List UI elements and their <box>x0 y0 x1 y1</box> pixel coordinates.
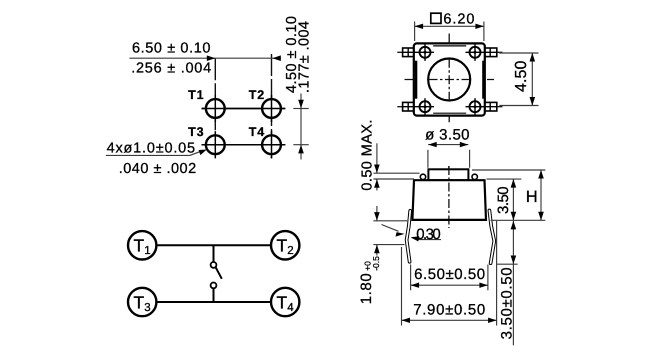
dim 3.50 body line <box>512 179 514 220</box>
lead top-right <box>485 48 497 57</box>
dim 6.50+-0.50 ext left <box>410 265 412 291</box>
dim 6.50+-0.50 arrow right <box>479 283 488 288</box>
leg right <box>489 211 494 264</box>
pad T1 <box>206 99 225 118</box>
cover inner line bottom <box>433 112 466 114</box>
dim 4.50 arrow down <box>298 100 304 109</box>
dim 7.90+-0.50 line <box>402 319 497 321</box>
switch S1 contact bottom <box>211 283 217 289</box>
tick T4 row <box>293 144 308 146</box>
svg-text:T3: T3 <box>188 125 204 139</box>
lead bottom-right <box>485 102 497 111</box>
dim 3.50 arrow down <box>511 212 517 221</box>
dim 0.50 arrow up <box>374 179 380 188</box>
dim 6.20 ext right <box>483 22 485 42</box>
leader 0.30 left <box>382 225 399 232</box>
svg-text:.256 ± .004: .256 ± .004 <box>131 61 211 77</box>
leader 0.30 right with underline <box>411 237 441 239</box>
centerline vertical side view <box>448 166 450 228</box>
svg-text:T4: T4 <box>249 125 265 139</box>
dim 3.50+-0.50 arrow up <box>511 221 517 230</box>
dim 1.80 line bottom <box>376 245 378 256</box>
rivet bottom-right <box>466 98 497 116</box>
svg-text:1.80: 1.80 <box>358 273 375 304</box>
rivet top-left <box>403 43 434 61</box>
ear left <box>420 174 425 179</box>
dim 0.50 tick bottom <box>374 178 415 180</box>
dim 6.50+-0.50 arrow left <box>411 283 420 288</box>
dim 6.50+-0.50 ext right <box>487 265 489 291</box>
dim 4.50 line <box>531 53 533 106</box>
pad T3 <box>206 135 225 154</box>
dim 7.90+-0.50 arrow right <box>488 318 497 323</box>
dim H arrow down <box>538 212 544 221</box>
seating tick <box>496 263 517 265</box>
svg-text:4.50: 4.50 <box>513 60 530 92</box>
tick T2 row <box>293 108 308 110</box>
svg-text:6.20: 6.20 <box>443 12 474 28</box>
dim dia 3.50 ext left <box>427 150 429 168</box>
side seam bar left <box>415 61 418 99</box>
terminal T1 <box>128 231 156 259</box>
dim 6.20 ext left <box>414 22 416 42</box>
pad T4 <box>262 135 281 154</box>
wire T3-T4 <box>157 301 272 303</box>
leg left <box>407 211 411 262</box>
terminal T3 <box>128 288 156 316</box>
dim 4.50 ext top <box>499 52 538 54</box>
dim 4.50 arrow up <box>298 145 304 154</box>
dim 0.50 tick top <box>374 172 420 174</box>
svg-text:-0.5: -0.5 <box>371 256 381 271</box>
dim H ext bottom <box>491 219 546 221</box>
pad centerline vertical T2-T4 <box>271 54 273 159</box>
pad row line T3-T4 <box>202 144 286 146</box>
dim square 6.20 symbol <box>431 13 441 23</box>
terminal T2 <box>271 231 299 259</box>
dim 4.50 ext bottom <box>499 105 538 107</box>
switch body side view <box>412 180 486 220</box>
dim 6.50 arrow left <box>272 55 281 61</box>
dim 6.50+-0.50 line <box>411 284 488 286</box>
dim 4.50 arrow up <box>530 53 536 62</box>
svg-text:T2: T2 <box>249 88 265 102</box>
dim dia 3.50 ext right <box>469 150 471 168</box>
svg-text:0.50 MAX.: 0.50 MAX. <box>360 120 376 191</box>
dim 6.20 arrow right <box>475 24 484 29</box>
svg-text:6.50±0.50: 6.50±0.50 <box>414 266 485 283</box>
centerline inside body <box>448 166 450 219</box>
pad centerline vertical T1-T3 <box>214 58 216 158</box>
svg-text:H: H <box>526 188 538 206</box>
dim H line <box>540 170 542 220</box>
button side view <box>428 169 468 180</box>
switch body outline top view <box>414 43 485 115</box>
switch S1 stem top <box>213 245 215 262</box>
terminal T4 <box>271 288 299 316</box>
wire T1-T2 <box>157 244 272 246</box>
dim 6.20 line <box>415 25 484 27</box>
pad crosshairs <box>202 95 286 158</box>
lead top-left <box>403 48 414 57</box>
dim 6.50 arrow right <box>207 55 216 61</box>
dim H arrow up <box>538 170 544 179</box>
side seam bar right <box>482 61 485 99</box>
dim 4.50 arrow down <box>530 97 536 106</box>
dim 1.80 text rotated <box>358 256 381 304</box>
svg-text:.177± .004: .177± .004 <box>296 21 312 93</box>
dim 7.90+-0.50 ext left <box>401 247 403 326</box>
dim 3.50 body ext <box>487 178 522 180</box>
dim 3.50+-0.50 line <box>512 221 514 346</box>
dim 0.50 line top <box>376 143 378 173</box>
dim 7.90+-0.50 ext right <box>496 221 498 326</box>
dimension 6.50 line <box>129 57 281 59</box>
rivet top-right <box>466 43 497 61</box>
centerline horizontal top view <box>405 79 495 81</box>
rivet bottom-left <box>403 98 434 116</box>
lead bottom-left <box>403 102 414 111</box>
svg-text:6.50 ± 0.10: 6.50 ± 0.10 <box>132 41 211 57</box>
switch S1 lever <box>216 267 222 279</box>
button circle top view <box>428 59 470 101</box>
leader line 4x dia <box>106 154 190 156</box>
dim 3.50+-0.50 arrow down <box>511 256 517 265</box>
dim 1.80 arrow down <box>374 212 380 221</box>
svg-text:3.50±0.50: 3.50±0.50 <box>498 267 515 339</box>
dim 3.50 arrow up <box>511 179 517 188</box>
svg-text:7.90±0.50: 7.90±0.50 <box>413 302 485 319</box>
dim 1.80 arrow up <box>374 245 380 254</box>
pad T2 <box>262 99 281 118</box>
switch S1 contact top <box>211 262 217 268</box>
dim 0.50 arrow down <box>374 165 380 174</box>
dim H ext top <box>472 169 545 171</box>
dim 1.80 line top <box>376 206 378 221</box>
dimension 4.50 vertical line <box>300 94 302 160</box>
lead center dashes <box>397 52 502 106</box>
dim dia 3.50 arrow left <box>428 142 437 147</box>
dim 6.20 arrow left <box>415 24 424 29</box>
dim dia 3.50 line <box>428 144 468 146</box>
svg-text:ø 3.50: ø 3.50 <box>425 127 469 144</box>
svg-text:T1: T1 <box>188 88 204 102</box>
svg-text:0.30: 0.30 <box>416 226 441 243</box>
dim 1.80 tick top <box>373 220 407 222</box>
dim 1.80 tick bottom <box>373 244 404 246</box>
centerline vertical top view <box>448 34 450 123</box>
dim 0.50 line bottom <box>376 179 378 190</box>
pad row line T1-T2 <box>202 108 286 110</box>
dim 7.90+-0.50 arrow left <box>402 318 411 323</box>
svg-text:4xø1.0±0.05: 4xø1.0±0.05 <box>107 140 196 156</box>
ear right <box>472 174 477 179</box>
svg-text:3.50: 3.50 <box>495 186 512 214</box>
svg-text:.040 ± .002: .040 ± .002 <box>119 161 197 177</box>
leader arrow to pad T3 <box>199 150 207 156</box>
switch S1 stem bottom <box>213 288 215 302</box>
dim dia 3.50 arrow right <box>460 142 469 147</box>
cover inner line top <box>433 45 466 47</box>
centerline inside circle <box>448 59 450 100</box>
